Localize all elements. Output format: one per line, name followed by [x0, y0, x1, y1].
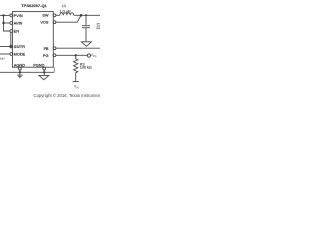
supply bar VIN under R3: [73, 80, 79, 84]
svg-text:EN: EN: [14, 29, 20, 34]
junction node SS/TR tie: [10, 46, 12, 48]
svg-text:FB: FB: [44, 46, 49, 51]
svg-text:100 kΩ: 100 kΩ: [80, 66, 92, 70]
pin circle EN: [10, 30, 13, 33]
junction node R3 tap: [75, 54, 77, 56]
svg-text:SS/TR: SS/TR: [14, 44, 26, 49]
pin circle PVIN: [10, 14, 13, 17]
capacitor C2 bottom lead: [84, 28, 88, 42]
pin circle AGND: [19, 67, 22, 70]
svg-text:PG: PG: [43, 53, 49, 58]
resistor R3 100 kOhm: [74, 55, 78, 81]
wire thermal pad stub: [53, 67, 55, 72]
wire SW output: [56, 14, 60, 18]
wire MODE: [0, 52, 10, 56]
junction node AVIN: [2, 22, 4, 24]
inductor L1 coil: [60, 13, 74, 16]
wire PGND stub: [42, 70, 46, 72]
svg-text:1.0 µH: 1.0 µH: [59, 9, 70, 13]
svg-text:SW: SW: [42, 13, 49, 18]
wire FB: [56, 46, 100, 50]
wire ground rail: [0, 71, 54, 75]
svg-text:AGND: AGND: [14, 62, 25, 67]
junction node PGND rail: [43, 71, 45, 73]
wire SS/TR: [0, 45, 10, 49]
pin circle SW: [53, 14, 56, 17]
wire VOS sense: [56, 15, 81, 22]
IC U1 TPS62097-Q1 body: [12, 12, 53, 68]
junction node VOS tap: [80, 14, 83, 17]
capacitor C2 plates: [82, 24, 90, 28]
svg-text:VOS: VOS: [40, 20, 49, 25]
svg-text:R4*: R4*: [0, 57, 5, 61]
terminal circle VPG: [87, 54, 90, 57]
wire AVIN branch: [4, 21, 10, 25]
capacitor C2 top lead: [84, 15, 88, 25]
svg-text:TPS62097-Q1: TPS62097-Q1: [21, 3, 47, 8]
svg-text:22 µF: 22 µF: [96, 26, 100, 30]
wire VIN rail down to EN: [4, 15, 10, 31]
ground triangle for PGND: [42, 72, 46, 75]
wire PG: [56, 53, 88, 57]
pin circle SS/TR: [10, 45, 13, 48]
wire AGND stub: [18, 70, 22, 72]
pin circle PGND: [43, 67, 46, 70]
wire VOUT line: [74, 14, 100, 18]
svg-text:MODE: MODE: [14, 52, 26, 57]
junction node C2 tap: [85, 14, 87, 16]
svg-text:PVIN: PVIN: [14, 13, 23, 18]
pin circle PG: [53, 54, 56, 57]
svg-text:L1: L1: [62, 4, 66, 8]
junction node AGND rail: [19, 71, 21, 73]
pin circle VOS: [53, 21, 56, 24]
pin circle FB: [53, 47, 56, 50]
ground earth symbol AGND: [18, 72, 22, 75]
junction node VIN/C1: [2, 14, 4, 16]
svg-text:PGND: PGND: [33, 62, 44, 67]
pin circle MODE: [10, 53, 13, 56]
svg-text:AVIN: AVIN: [14, 21, 23, 26]
ground triangle for C2: [81, 42, 91, 47]
wire VIN input to PVIN: [0, 14, 10, 18]
svg-text:Copyright © 2016, Texas Instru: Copyright © 2016, Texas Instruments Inco…: [34, 93, 101, 98]
pin circle AVIN: [10, 22, 13, 25]
wire EN to SS/TR tie: [9, 32, 13, 46]
